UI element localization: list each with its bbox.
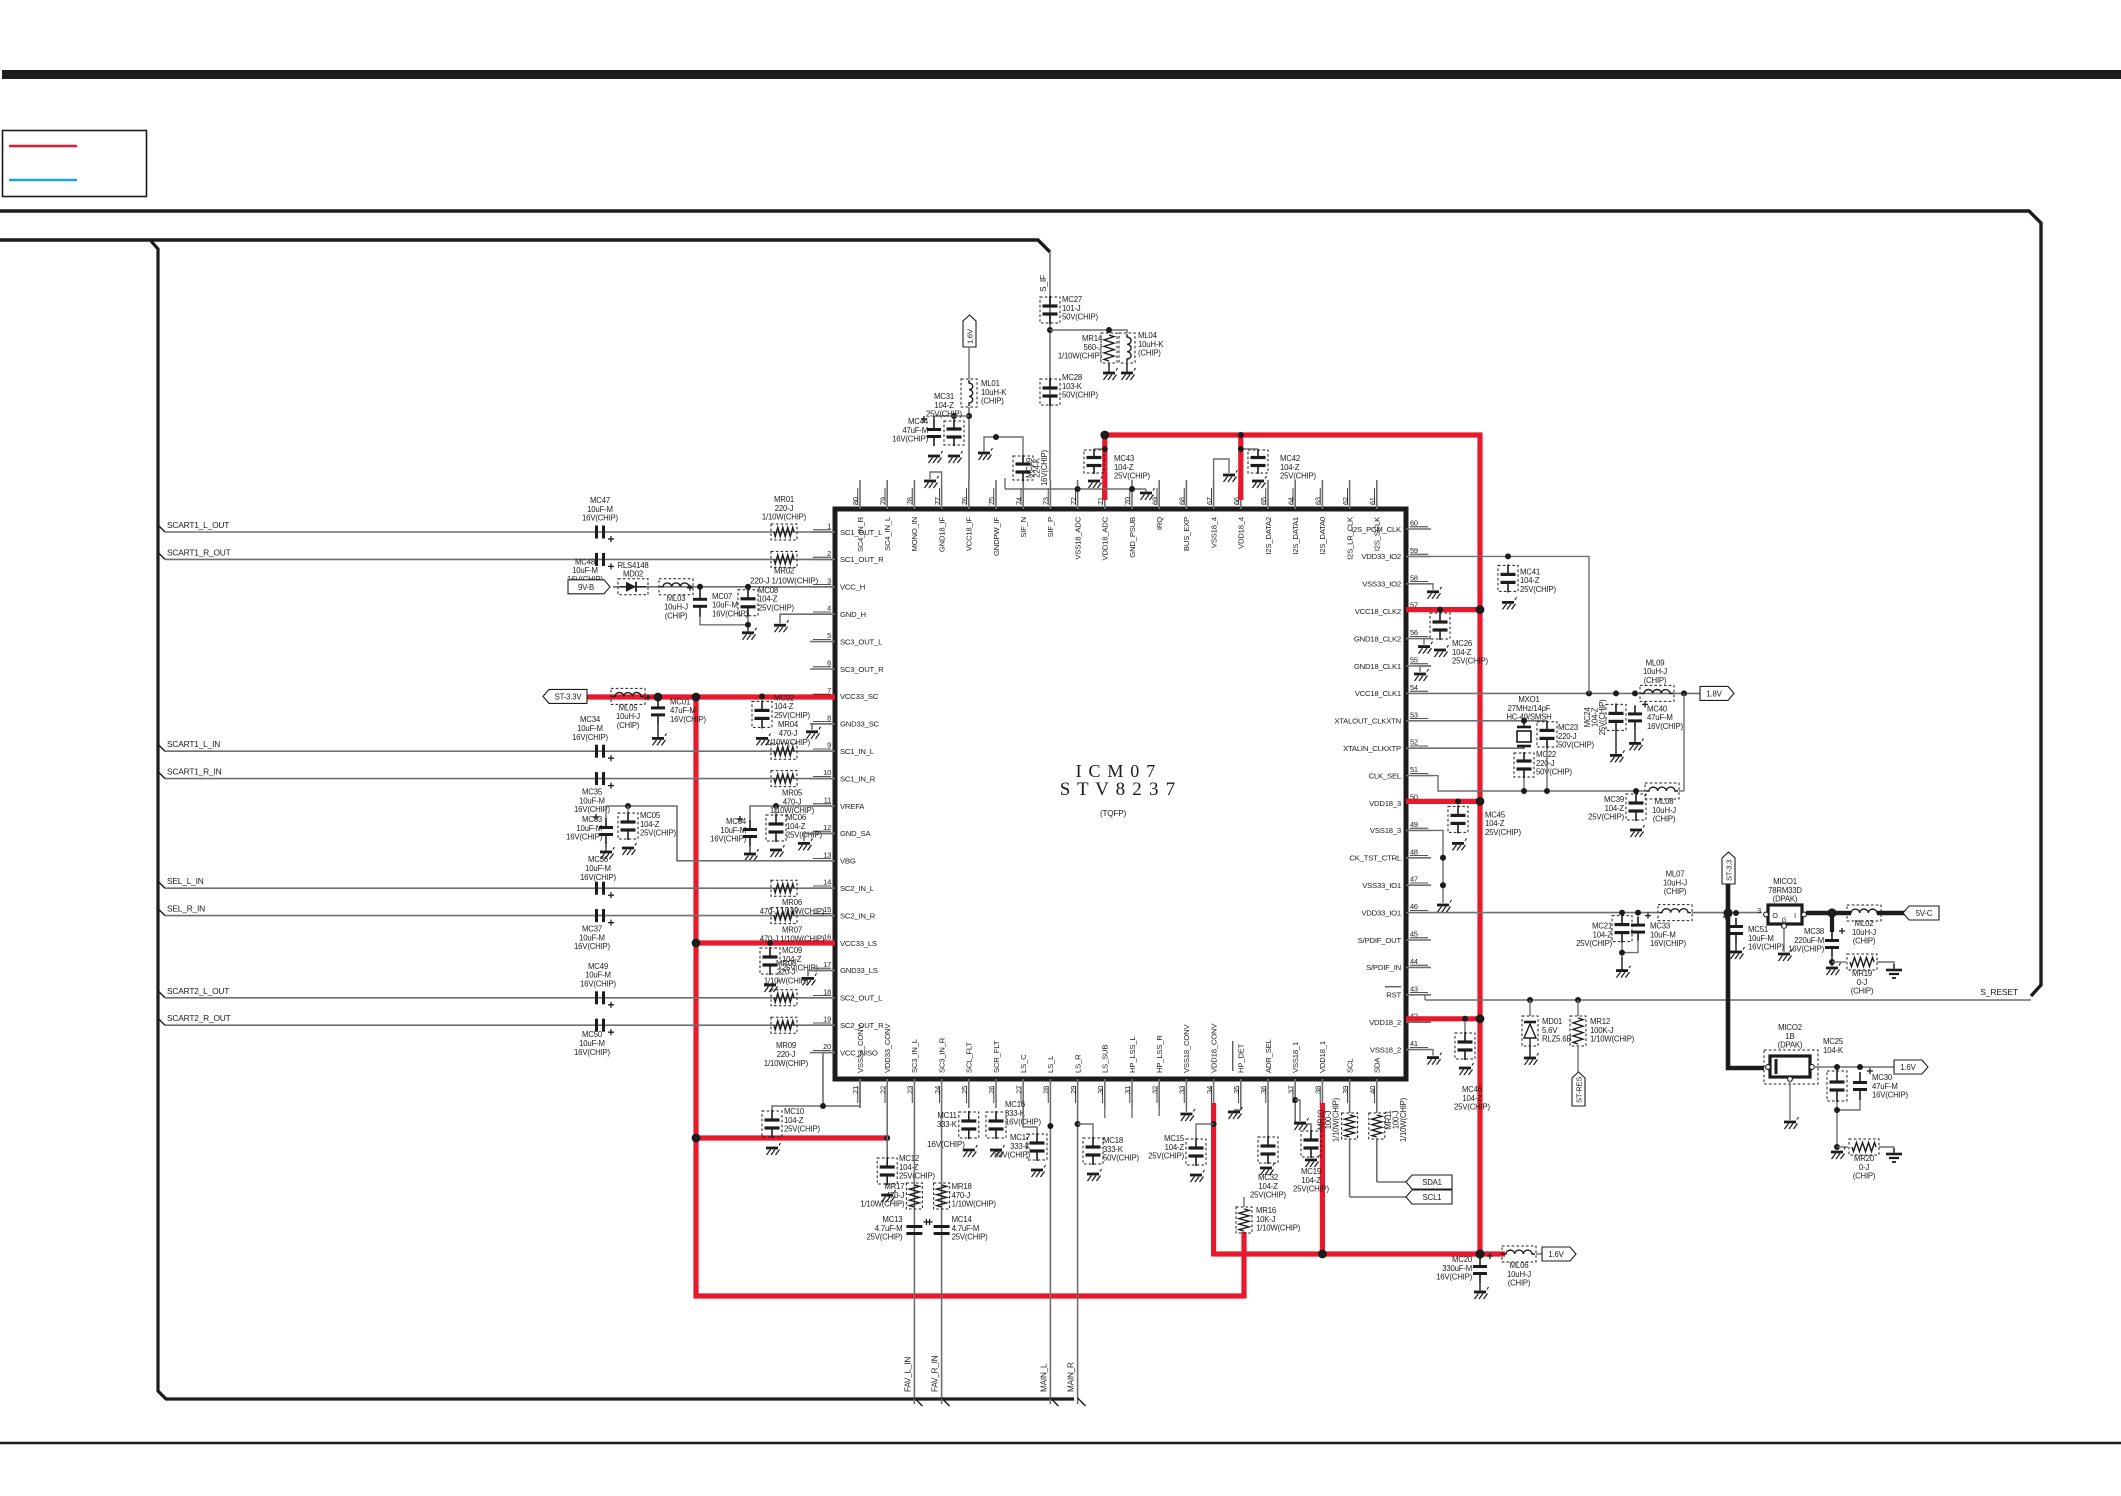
svg-text:ML04: ML04 — [1138, 331, 1158, 340]
pin 41 VSS18_2 (right) — [1370, 1039, 1431, 1054]
resistor MR07 — [760, 908, 825, 944]
svg-text:13: 13 — [823, 850, 831, 859]
svg-text:470-J: 470-J — [886, 1191, 905, 1200]
svg-text:75: 75 — [987, 497, 996, 505]
svg-text:16V(CHIP): 16V(CHIP) — [1788, 945, 1824, 954]
wire node SEL_L_IN — [157, 876, 835, 888]
pin 74 SIF_N (top) — [1014, 480, 1028, 538]
resistor MR14 — [1058, 333, 1117, 363]
svg-text:11: 11 — [824, 796, 831, 805]
wire MC24 gnd — [1615, 731, 1617, 755]
svg-text:104-Z: 104-Z — [1593, 930, 1613, 939]
svg-text:MR06: MR06 — [782, 898, 802, 907]
capacitor MC11 — [927, 1111, 979, 1149]
svg-text:50V(CHIP): 50V(CHIP) — [1062, 391, 1098, 400]
pin 27 LS_C (bottom) — [1014, 1054, 1028, 1108]
svg-text:(CHIP): (CHIP) — [1664, 887, 1687, 896]
svg-text:MR12: MR12 — [1590, 1017, 1610, 1026]
pin 4 GND_H (left) — [810, 604, 866, 619]
inductor ML02 — [1847, 905, 1881, 946]
wire pin29 to MC18 — [1078, 1124, 1093, 1137]
wire pin55 gnd — [1420, 666, 1431, 672]
capacitor MC07 — [687, 585, 748, 619]
svg-text:56: 56 — [1410, 628, 1418, 637]
ground MC05 — [622, 843, 637, 855]
junction MC25 bottom — [1834, 1107, 1840, 1113]
junction red vertical top — [692, 693, 701, 702]
svg-text:FAV_R_IN: FAV_R_IN — [931, 1355, 940, 1392]
junction MC41 — [1505, 553, 1511, 559]
inductor ML03 — [659, 579, 693, 621]
svg-text:220-J 1/10W(CHIP): 220-J 1/10W(CHIP) — [750, 576, 819, 585]
wire pin17 GND33_LS — [808, 970, 835, 976]
net tag 5V-C — [1903, 906, 1939, 920]
svg-text:SC3_OUT_R: SC3_OUT_R — [840, 665, 884, 674]
svg-text:25V(CHIP): 25V(CHIP) — [952, 1233, 988, 1242]
capacitor MC44 — [892, 416, 941, 446]
svg-text:MR09: MR09 — [776, 1041, 796, 1050]
node FAV_L_IN — [903, 1357, 912, 1392]
ground pin56 — [1418, 642, 1433, 654]
capacitor MC41 — [1498, 564, 1556, 594]
ground pin67 — [1223, 470, 1238, 482]
pin 61 I2S_SCLK (top) — [1368, 480, 1382, 551]
svg-text:104-Z: 104-Z — [1165, 1143, 1185, 1152]
svg-text:50V(CHIP): 50V(CHIP) — [1536, 768, 1572, 777]
svg-text:10uH-J: 10uH-J — [1643, 667, 1667, 676]
junction pin7 MC01 — [655, 693, 661, 699]
pin 37 VSS18_1 (bottom) — [1286, 1042, 1300, 1108]
capacitor MC15 — [1148, 1134, 1206, 1166]
svg-text:I2S_DATA2: I2S_DATA2 — [1264, 517, 1273, 555]
svg-text:7: 7 — [827, 686, 831, 695]
svg-text:59: 59 — [1410, 546, 1418, 555]
pin 3 VCC_H (left) — [810, 576, 865, 591]
junction MC21 gnd — [1619, 950, 1625, 956]
svg-text:16V(CHIP): 16V(CHIP) — [582, 514, 618, 523]
svg-text:MC43: MC43 — [1114, 454, 1134, 463]
svg-text:50V(CHIP): 50V(CHIP) — [1558, 741, 1594, 750]
svg-text:GND18_IF: GND18_IF — [937, 517, 946, 553]
svg-text:SDA1: SDA1 — [1422, 1178, 1442, 1187]
svg-text:1/10W(CHIP): 1/10W(CHIP) — [1399, 1097, 1408, 1142]
wire ML04 gnd — [1126, 363, 1128, 373]
svg-text:16V(CHIP): 16V(CHIP) — [574, 805, 610, 814]
wire pin56 gnd — [1424, 639, 1431, 645]
junction pin48 — [1440, 855, 1446, 861]
svg-text:10uH-J: 10uH-J — [1852, 928, 1876, 937]
capacitor MC37 — [574, 909, 614, 951]
junction MC42 red — [1238, 446, 1244, 452]
svg-text:MICO1: MICO1 — [1773, 877, 1797, 886]
svg-text:104-Z: 104-Z — [1452, 648, 1472, 657]
svg-text:I C M 0 7: I C M 0 7 — [1076, 761, 1157, 781]
ground pin41 — [1427, 1053, 1442, 1065]
wire pin58 gnd — [1431, 584, 1433, 590]
junction MC24 — [1613, 690, 1619, 696]
wire pin27 to MC17 — [1023, 1108, 1037, 1133]
svg-text:25V(CHIP): 25V(CHIP) — [1520, 585, 1556, 594]
svg-text:HC-49/SMSH: HC-49/SMSH — [1506, 713, 1551, 722]
capacitor MC29 — [1013, 449, 1049, 485]
svg-text:25V(CHIP): 25V(CHIP) — [1148, 1152, 1184, 1161]
capacitor MC49 — [580, 962, 616, 1008]
capacitor MC26 — [1430, 612, 1488, 666]
pin 33 VSS18_CONV (bottom) — [1178, 1024, 1192, 1108]
capacitor MC33 — [1631, 913, 1686, 949]
svg-text:10uF-M: 10uF-M — [577, 724, 603, 733]
resistor MR06 — [760, 880, 825, 916]
svg-text:MC46: MC46 — [1462, 1085, 1482, 1094]
svg-text:10uF-M: 10uF-M — [572, 566, 598, 575]
wire MC21/MC33 join — [1622, 941, 1638, 957]
svg-text:10uF-M: 10uF-M — [1650, 930, 1676, 939]
wire MC29 to pin74 — [1022, 481, 1024, 484]
ground MC20 — [1474, 1287, 1489, 1299]
junction MC22 rail — [1521, 788, 1527, 794]
ground MC51 — [1730, 947, 1745, 959]
svg-text:MR04: MR04 — [778, 720, 799, 729]
ground ML04 — [1121, 368, 1136, 380]
svg-text:47: 47 — [1410, 875, 1418, 884]
ground MC41 — [1502, 597, 1517, 609]
ground pin8 — [806, 727, 821, 739]
ground MICO2 — [1784, 1117, 1799, 1129]
svg-text:10uF-M: 10uF-M — [579, 796, 605, 805]
wire ADC ground rail — [1005, 478, 1146, 492]
capacitor MC46 — [1454, 1021, 1490, 1112]
svg-text:MC40: MC40 — [1647, 704, 1668, 713]
svg-text:VDD18_4: VDD18_4 — [1237, 516, 1246, 549]
svg-text:GND18_CLK1: GND18_CLK1 — [1354, 662, 1401, 671]
svg-text:32: 32 — [1150, 1086, 1159, 1094]
ground pin12 — [798, 838, 813, 850]
pin 26 SCR_FLT (bottom) — [987, 1040, 1001, 1108]
svg-text:27: 27 — [1014, 1086, 1023, 1094]
svg-text:(CHIP): (CHIP) — [617, 721, 640, 730]
svg-text:S/PDIF_OUT: S/PDIF_OUT — [1358, 936, 1402, 945]
pin 42 VDD18_2 (right) — [1369, 1012, 1431, 1027]
pin 14 SC2_IN_L (left) — [810, 878, 875, 893]
junction pin3 b — [745, 584, 751, 590]
svg-text:IRQ: IRQ — [1155, 517, 1164, 530]
svg-text:65: 65 — [1259, 497, 1268, 505]
svg-text:MC38: MC38 — [1804, 927, 1824, 936]
ground MC03 — [600, 847, 615, 859]
svg-text:10uF-M: 10uF-M — [585, 971, 611, 980]
wire MR19 to earth — [1877, 962, 1894, 968]
svg-text:MR08: MR08 — [776, 959, 796, 968]
svg-text:MD02: MD02 — [623, 570, 643, 579]
capacitor MC39 — [1588, 793, 1646, 822]
inner frame top bus — [0, 240, 1050, 252]
svg-text:0-J: 0-J — [1859, 1163, 1870, 1172]
wire RST to S_RESET — [1425, 995, 1431, 1000]
svg-text:ML07: ML07 — [1666, 870, 1685, 879]
junction pin72 rail — [1075, 486, 1081, 492]
svg-text:MC36: MC36 — [588, 855, 608, 864]
svg-text:ML02: ML02 — [1855, 919, 1874, 928]
capacitor MC50 — [574, 1019, 614, 1057]
svg-text:470-J: 470-J — [783, 797, 802, 806]
ground MC45 — [1452, 838, 1467, 850]
svg-text:(CHIP): (CHIP) — [665, 611, 688, 620]
svg-text:LS_SUB: LS_SUB — [1101, 1045, 1110, 1073]
svg-text:MC37: MC37 — [582, 925, 602, 934]
junction MR12 — [1575, 997, 1581, 1003]
svg-text:104-Z: 104-Z — [1520, 576, 1540, 585]
inner frame left/bottom bus — [151, 241, 1074, 1399]
capacitor MC25 — [1827, 1070, 1847, 1102]
wire pin31 drop — [1131, 1108, 1133, 1118]
svg-text:68: 68 — [1178, 497, 1187, 505]
svg-text:GND33_LS: GND33_LS — [840, 966, 878, 975]
svg-text:16V(CHIP): 16V(CHIP) — [1872, 1091, 1908, 1100]
wire node SCART2_L_OUT — [157, 986, 835, 998]
svg-text:78: 78 — [906, 497, 915, 505]
svg-text:MC19: MC19 — [1301, 1167, 1321, 1176]
svg-text:1/10W(CHIP): 1/10W(CHIP) — [1332, 1097, 1341, 1142]
svg-text:3: 3 — [1757, 906, 1761, 915]
ground MC02 — [756, 733, 771, 745]
svg-text:10uF-M: 10uF-M — [576, 824, 602, 833]
resistor MR20 — [1849, 1139, 1879, 1181]
legend blue sample line — [9, 179, 77, 182]
svg-text:MC12: MC12 — [899, 1154, 919, 1163]
wire pin30 drop — [1104, 1108, 1106, 1118]
crystal MXO1 — [1506, 695, 1551, 748]
svg-text:SC3_IN_L: SC3_IN_L — [910, 1038, 919, 1073]
svg-text:104-Z: 104-Z — [1605, 804, 1625, 813]
svg-text:45: 45 — [1410, 930, 1418, 939]
svg-text:VSS18_2: VSS18_2 — [1370, 1045, 1401, 1054]
svg-text:MC08: MC08 — [758, 586, 778, 595]
pin 22 VDD33_CONV (bottom) — [878, 1023, 892, 1108]
svg-text:104-Z: 104-Z — [1114, 463, 1134, 472]
svg-text:SCL_FLT: SCL_FLT — [965, 1042, 974, 1073]
capacitor MC08 — [738, 586, 794, 617]
node MAIN_L — [1039, 1363, 1048, 1392]
wire pin77 gnd bracket — [930, 472, 942, 480]
ground MC16 — [990, 1145, 1005, 1157]
pin 60 I2S_PCM_CLK (right) — [1351, 519, 1431, 534]
resistor MR11 — [1369, 1097, 1408, 1142]
svg-text:MC30: MC30 — [1872, 1073, 1893, 1082]
red net pin57 VCC18_CLK2 branch — [1406, 607, 1480, 612]
wire ML07 to MICO1 — [1692, 912, 1762, 914]
pin 34 VDD18_CONV (bottom) — [1205, 1023, 1219, 1108]
junction pin57 MC26 — [1437, 607, 1443, 613]
svg-text:SCART1_L_OUT: SCART1_L_OUT — [167, 520, 229, 530]
capacitor MC27 — [1040, 295, 1098, 324]
svg-text:220-J: 220-J — [777, 1050, 796, 1059]
svg-text:VSS18_3: VSS18_3 — [1370, 826, 1401, 835]
pin 6 SC3_OUT_R (left) — [810, 659, 884, 674]
svg-text:25V(CHIP): 25V(CHIP) — [1114, 472, 1150, 481]
svg-text:220-J: 220-J — [775, 504, 794, 513]
junction red pin16 — [692, 939, 701, 948]
net tag SCL1 — [1406, 1190, 1452, 1204]
wire MC22 to rail — [1523, 778, 1525, 791]
ground MC39 — [1630, 825, 1645, 837]
svg-text:MC42: MC42 — [1280, 454, 1300, 463]
svg-text:S/PDIF_IN: S/PDIF_IN — [1366, 963, 1401, 972]
inductor ML05 — [611, 688, 645, 730]
wire ML06 out — [1536, 1253, 1542, 1255]
svg-text:SEL_R_IN: SEL_R_IN — [167, 904, 205, 914]
svg-text:77: 77 — [933, 497, 942, 505]
ground MC04 — [744, 849, 759, 861]
svg-text:MC13: MC13 — [882, 1215, 902, 1224]
pin 68 BUS_EXP (top) — [1178, 480, 1192, 551]
svg-text:RLZ5.6B: RLZ5.6B — [1542, 1035, 1571, 1044]
junction pin59 join — [1586, 690, 1592, 696]
svg-text:104-Z: 104-Z — [774, 702, 794, 711]
capacitor MC38 — [1788, 927, 1845, 956]
wire pin53 — [1431, 720, 1547, 722]
svg-text:SC1_IN_R: SC1_IN_R — [840, 774, 876, 783]
wire pin52 — [1431, 747, 1524, 749]
svg-text:MC50: MC50 — [582, 1030, 603, 1039]
capacitor MC45 — [1448, 805, 1521, 837]
svg-text:54: 54 — [1410, 683, 1418, 692]
ground MC18 — [1087, 1169, 1102, 1181]
svg-text:16V(CHIP): 16V(CHIP) — [566, 833, 602, 842]
pin 16 VCC33_LS (left) — [810, 933, 877, 948]
wire MC20 gnd — [1479, 1283, 1481, 1292]
svg-text:(CHIP): (CHIP) — [1851, 987, 1874, 996]
wire pin23 FAV_L_IN — [914, 1108, 922, 1406]
svg-text:MR01: MR01 — [774, 495, 794, 504]
capacitor MC17 — [994, 1133, 1047, 1161]
svg-text:S_RESET: S_RESET — [1980, 987, 2019, 997]
junction pin20/21 — [820, 1103, 826, 1109]
svg-text:MC28: MC28 — [1062, 373, 1082, 382]
svg-text:16V(CHIP): 16V(CHIP) — [1748, 943, 1784, 952]
ground MC46 — [1459, 1063, 1474, 1075]
wire MR20 right — [1879, 1147, 1894, 1152]
wire pin54 1.8V rail — [1431, 692, 1700, 694]
svg-text:16V(CHIP): 16V(CHIP) — [1650, 939, 1686, 948]
ground MR19 earth — [1886, 964, 1902, 978]
svg-text:MC11: MC11 — [937, 1111, 956, 1120]
inductor ML08 — [1645, 783, 1679, 824]
pin 72 VSS18_ADC (top) — [1069, 480, 1083, 560]
wire pin40 SDA — [1377, 1108, 1406, 1182]
svg-text:MC47: MC47 — [590, 496, 610, 505]
wire pin13 VBG route — [606, 806, 835, 861]
svg-text:ST-RES: ST-RES — [1575, 1077, 1584, 1103]
junction VREFA MC06 — [773, 803, 779, 809]
svg-text:VCC18_CLK2: VCC18_CLK2 — [1355, 607, 1401, 616]
svg-text:27MHz/14pF: 27MHz/14pF — [1508, 704, 1551, 713]
svg-text:(CHIP): (CHIP) — [1644, 676, 1667, 685]
svg-text:52: 52 — [1410, 738, 1418, 747]
wire shared gnd lead — [747, 625, 749, 633]
svg-text:25: 25 — [960, 1086, 969, 1094]
page bottom rule — [0, 1442, 2121, 1444]
pin 73 SIF_P (top) — [1042, 480, 1056, 537]
svg-text:74: 74 — [1014, 497, 1023, 505]
ground MC24 — [1610, 750, 1625, 762]
wire MC04 gnd — [749, 846, 751, 854]
svg-text:49: 49 — [1410, 820, 1418, 829]
pin 31 HP_LSS_L (bottom) — [1123, 1036, 1137, 1108]
svg-text:104-Z: 104-Z — [784, 1116, 804, 1125]
wire MC25/MC30 join — [1837, 1100, 1860, 1147]
svg-text:16V(CHIP): 16V(CHIP) — [1040, 449, 1049, 485]
svg-text:VCC33_LS: VCC33_LS — [840, 939, 877, 948]
svg-text:25V(CHIP): 25V(CHIP) — [1485, 828, 1521, 837]
pin 50 VDD18_3 (right) — [1369, 793, 1431, 808]
svg-text:25V(CHIP): 25V(CHIP) — [758, 603, 794, 612]
svg-text:103-K: 103-K — [1062, 382, 1083, 391]
svg-text:MC04: MC04 — [726, 817, 747, 826]
capacitor MC06 — [766, 813, 822, 842]
wire MR20 left — [1837, 1146, 1848, 1148]
svg-text:16V(CHIP): 16V(CHIP) — [1647, 722, 1683, 731]
ground MC31 — [948, 451, 963, 463]
pin 51 CLK_SEL (right) — [1369, 765, 1431, 780]
capacitor MC09 — [760, 946, 818, 975]
svg-text:16V(CHIP): 16V(CHIP) — [1436, 1273, 1472, 1282]
junction VCC18_IF a — [951, 413, 957, 419]
pin 77 GND18_IF (top) — [933, 480, 947, 552]
junction MC40 — [1632, 690, 1638, 696]
svg-text:MC17: MC17 — [1010, 1133, 1030, 1142]
svg-text:72: 72 — [1069, 497, 1078, 505]
svg-text:19: 19 — [823, 1015, 831, 1024]
capacitor MC14 (series) — [927, 1215, 988, 1242]
svg-text:ST-3.3V: ST-3.3V — [555, 692, 583, 701]
inductor ML04 — [1119, 331, 1164, 363]
capacitor MC24 — [1583, 699, 1626, 735]
wire MR19 link — [1832, 961, 1846, 963]
svg-text:VSS18_1: VSS18_1 — [1291, 1042, 1300, 1073]
svg-text:ML05: ML05 — [619, 703, 639, 712]
svg-text:MC14: MC14 — [952, 1215, 973, 1224]
pin 67 VSS18_4 (top) — [1205, 480, 1219, 548]
svg-text:63: 63 — [1314, 497, 1323, 505]
pin 62 I2S_LR_CLK (top) — [1341, 480, 1355, 560]
pin 80 SC4_IN_R (top) — [851, 480, 865, 552]
pin 44 S/PDIF_IN (right) — [1366, 957, 1431, 972]
svg-text:MC01: MC01 — [670, 697, 690, 706]
pin 18 SC2_OUT_L (left) — [810, 987, 883, 1002]
svg-text:10uH-K: 10uH-K — [1138, 340, 1164, 349]
regulator MICO2 1B — [1764, 1023, 1818, 1084]
svg-text:MD01: MD01 — [1542, 1017, 1562, 1026]
wire pin36 ADR_SEL — [1267, 1108, 1269, 1136]
capacitor MC23 — [1537, 721, 1594, 750]
junction MC38 — [1827, 908, 1836, 917]
junction MD01 — [1527, 997, 1533, 1003]
svg-text:333-K: 333-K — [1010, 1142, 1031, 1151]
svg-text:16V(CHIP): 16V(CHIP) — [712, 609, 748, 618]
wire S_IF branch right — [1050, 330, 1127, 333]
svg-text:LS_L: LS_L — [1046, 1055, 1055, 1073]
svg-text:104-Z: 104-Z — [1485, 819, 1505, 828]
svg-text:LS_C: LS_C — [1019, 1054, 1028, 1073]
svg-text:MC15: MC15 — [1164, 1134, 1185, 1143]
outer frame (S_RESET routing) — [0, 211, 2041, 996]
capacitor MC40 — [1628, 701, 1683, 731]
svg-text:3: 3 — [827, 576, 831, 585]
red net pin16 VCC33_LS branch — [696, 940, 835, 945]
svg-text:25V(CHIP): 25V(CHIP) — [1598, 699, 1607, 735]
ground pin4 — [774, 620, 789, 632]
ground MR20 earth — [1886, 1148, 1902, 1162]
